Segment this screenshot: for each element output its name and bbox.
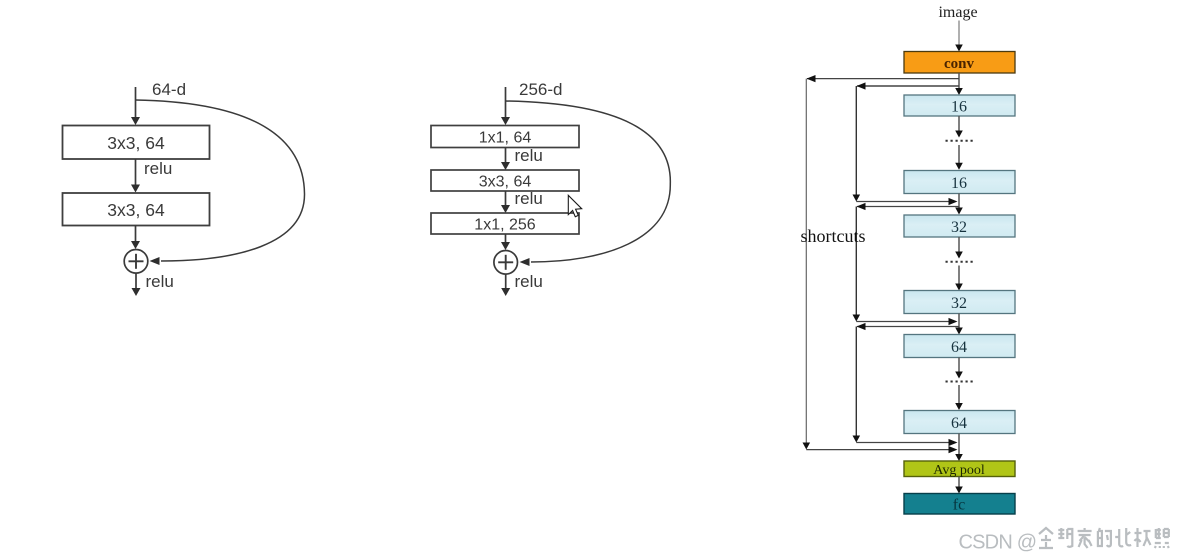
label relu B1	[515, 146, 543, 165]
label 256-d	[519, 80, 562, 99]
box 32a	[904, 215, 1015, 237]
wire 64a-dots	[958, 358, 960, 374]
svg-text:256-d: 256-d	[519, 80, 562, 99]
wire B3-plus	[505, 234, 507, 245]
arrowhead into box B3	[501, 205, 510, 213]
svg-text:relu: relu	[515, 189, 543, 208]
shortcut3 branch	[857, 326, 959, 328]
box 64b	[904, 411, 1015, 434]
arrowhead skip A	[150, 257, 160, 265]
arrowhead into 32a	[955, 208, 963, 215]
box 32b	[904, 291, 1015, 314]
wire left vertical long	[805, 79, 807, 445]
svg-text:1x1, 64: 1x1, 64	[479, 129, 532, 146]
wire 32a-dots	[958, 237, 960, 253]
arrowhead into box B2	[501, 162, 510, 170]
arrowhead shortcut2 join	[949, 318, 958, 325]
svg-text:CSDN @: CSDN @	[959, 532, 1037, 554]
box A2 3x3-64	[63, 193, 210, 226]
label relu A-out	[146, 272, 174, 291]
label 64-d	[152, 80, 186, 99]
arrowhead pre-dots3	[955, 372, 963, 379]
arrowhead B-out	[501, 288, 510, 296]
svg-text:3x3, 64: 3x3, 64	[107, 200, 165, 220]
svg-text:3x3, 64: 3x3, 64	[479, 173, 532, 190]
svg-text:64: 64	[951, 415, 967, 432]
wire left long join	[806, 449, 953, 451]
wire dots-32b	[958, 266, 960, 286]
watermark glyph xiong	[1155, 528, 1169, 548]
adder circle B	[494, 250, 518, 274]
svg-text:relu: relu	[144, 159, 172, 178]
watermark CSDN	[959, 532, 1037, 554]
arrowhead into 64a	[955, 328, 963, 335]
svg-text:32: 32	[951, 295, 967, 312]
arrowhead pre-dots1	[955, 131, 963, 138]
arrowhead into box A1	[131, 117, 140, 125]
box B3 1x1-256	[431, 213, 579, 234]
box A1 3x3-64	[63, 126, 210, 160]
watermark glyph qi	[1039, 528, 1053, 548]
wire dots-16b	[958, 145, 960, 164]
arrowhead shortcut1	[857, 82, 866, 89]
arrowhead into box B1	[501, 117, 510, 125]
arrowhead into box A2	[131, 185, 140, 193]
box avgpool	[904, 461, 1015, 478]
svg-text:16: 16	[951, 175, 967, 192]
box conv	[904, 52, 1015, 74]
mouse cursor	[568, 195, 581, 217]
arrowhead shortcut1 join	[949, 198, 958, 205]
dots 3	[946, 381, 975, 383]
shortcut long branch	[807, 78, 959, 80]
arrowhead shortcut long	[807, 75, 816, 82]
svg-text:shortcuts: shortcuts	[801, 226, 866, 246]
arrowhead into fc	[955, 487, 963, 494]
arrowhead into 64b	[955, 403, 963, 410]
svg-text:Avg pool: Avg pool	[933, 463, 985, 478]
label relu A1	[144, 159, 172, 178]
svg-text:relu: relu	[515, 146, 543, 165]
watermark glyph jia	[1078, 528, 1092, 548]
wire avg-fc	[958, 477, 960, 489]
box 16b	[904, 171, 1015, 194]
arrowhead shortcut3 down	[853, 436, 861, 443]
svg-text:image: image	[938, 4, 977, 21]
wire A1-A2	[135, 159, 137, 187]
wire image-conv	[958, 21, 960, 47]
arrowhead into conv	[955, 45, 963, 52]
wire input B	[505, 87, 507, 119]
arrowhead shortcut2	[857, 203, 866, 210]
label relu B2	[515, 189, 543, 208]
arrowhead into plus A	[131, 241, 140, 249]
wire shortcut2 join	[856, 321, 953, 323]
svg-text:64: 64	[951, 339, 967, 356]
wire B2-B3	[505, 191, 507, 207]
arrowhead shortcut2 down	[853, 315, 861, 322]
svg-text:fc: fc	[953, 497, 965, 514]
svg-text:16: 16	[951, 99, 967, 116]
svg-text:1x1, 256: 1x1, 256	[474, 216, 535, 233]
arrowhead shortcut3 join	[949, 439, 958, 446]
svg-text:relu: relu	[146, 272, 174, 291]
wire shortcut3 vertical	[855, 327, 857, 438]
wire dots-64b	[958, 385, 960, 405]
box 64a	[904, 335, 1015, 358]
wire 64b-avg	[958, 434, 960, 456]
shortcut1 branch	[857, 85, 959, 87]
shortcut2 branch	[857, 206, 959, 208]
watermark glyph e	[1058, 528, 1072, 547]
wire A-out	[135, 273, 137, 290]
wire conv-16	[958, 73, 960, 90]
box B2 3x3-64	[431, 170, 579, 191]
arrowhead shortcut1 down	[853, 195, 861, 202]
svg-text:3x3, 64: 3x3, 64	[107, 133, 165, 153]
watermark glyph bei	[1115, 528, 1131, 546]
watermark glyph de	[1098, 528, 1111, 546]
label relu B-out	[515, 272, 543, 291]
wire B1-B2	[505, 148, 507, 165]
arrowhead shortcut3	[857, 323, 866, 330]
wire shortcut1 join	[856, 201, 953, 203]
arrowhead into 16b	[955, 163, 963, 170]
wire shortcut1 vertical	[855, 86, 857, 197]
svg-text:relu: relu	[515, 272, 543, 291]
wire A2-plus	[135, 226, 137, 244]
arrowhead pre-dots2	[955, 252, 963, 259]
wire 32b-64a	[958, 314, 960, 330]
wire 16b-32a	[958, 194, 960, 210]
svg-text:64-d: 64-d	[152, 80, 186, 99]
arrowhead into 16a	[955, 88, 963, 95]
dots 2	[946, 261, 975, 263]
svg-text:32: 32	[951, 219, 967, 236]
svg-text:conv: conv	[944, 56, 975, 72]
wire input A	[135, 87, 137, 119]
skip curve A	[136, 100, 305, 261]
arrowhead into 32b	[955, 284, 963, 291]
wire shortcut2 vertical	[855, 207, 857, 317]
box fc	[904, 494, 1015, 515]
arrowhead into plus B	[501, 242, 510, 250]
arrowhead into avgpool	[955, 454, 963, 461]
arrowhead left long down	[803, 443, 811, 450]
arrowhead skip B	[520, 258, 530, 266]
arrowhead long join right	[949, 446, 958, 453]
skip curve B	[506, 101, 671, 262]
watermark glyph ji	[1135, 528, 1151, 547]
label image	[938, 4, 977, 21]
arrowhead A-out	[132, 288, 141, 296]
wire B-out	[505, 274, 507, 290]
wire 16a-dots	[958, 116, 960, 132]
adder circle A	[124, 249, 148, 273]
box B1 1x1-64	[431, 126, 579, 148]
dots 1	[946, 140, 975, 142]
wire shortcut3 join	[856, 442, 953, 444]
box 16a	[904, 95, 1015, 116]
label shortcuts	[801, 226, 866, 246]
